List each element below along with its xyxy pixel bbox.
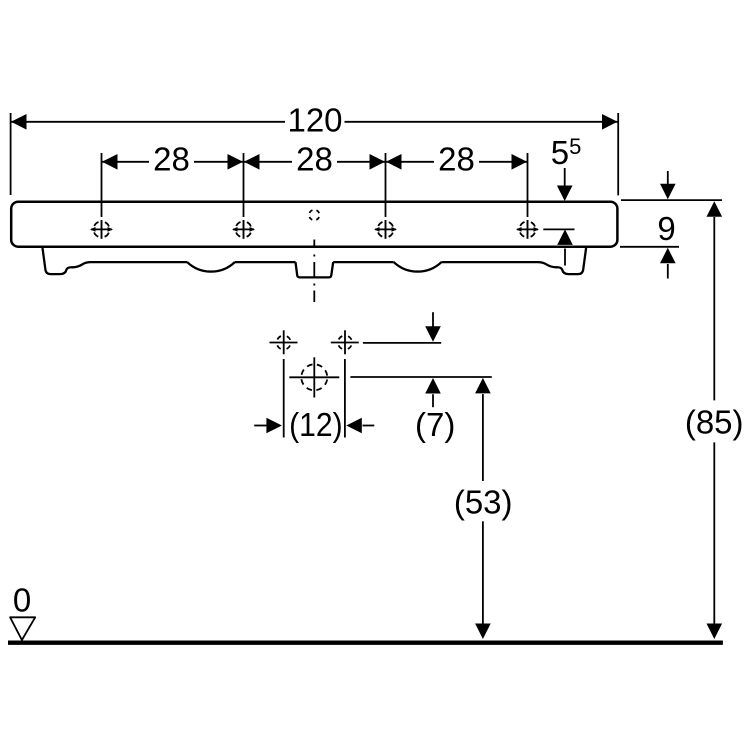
dimension (7) upper arrow (down) bbox=[425, 312, 441, 342]
svg-text:(7): (7) bbox=[415, 406, 455, 443]
tap hole symbol 2 bbox=[232, 220, 255, 239]
svg-text:0: 0 bbox=[13, 582, 31, 619]
apron line between drain and right arc bbox=[333, 261, 393, 263]
dimension 120 line bbox=[11, 121, 618, 123]
dimension 5.5 lower arrow (up) bbox=[557, 229, 573, 265]
dimension (12) extension line right bbox=[344, 359, 346, 438]
dimension 120 extension line right bbox=[617, 113, 619, 195]
siphon hole symbol bbox=[289, 357, 339, 397]
svg-text:(53): (53) bbox=[454, 484, 513, 521]
dimension 28 arrow at x=527.5 bbox=[512, 154, 528, 170]
tap hole symbol 4 bbox=[516, 220, 539, 239]
dimension 120 arrow right bbox=[602, 114, 618, 130]
dimension (85) top arrow (up) bbox=[707, 201, 723, 217]
drain trap box bbox=[296, 262, 334, 277]
dimension (12) left arrow (pointing right) bbox=[254, 418, 282, 434]
bowl arc left bbox=[187, 262, 235, 272]
svg-text:28: 28 bbox=[296, 140, 333, 177]
drain center line (dash-dot) bbox=[313, 240, 315, 303]
dimension 120 extension line left bbox=[10, 113, 12, 195]
dimension 28 line c bbox=[386, 161, 527, 163]
dimension (53) lower line and arrow (down) bbox=[475, 521, 491, 639]
washbasin slab outline bbox=[11, 202, 617, 247]
dimension 28 line a bbox=[102, 161, 243, 163]
tap hole symbol 1 bbox=[90, 220, 113, 239]
siphon height extension line bbox=[350, 376, 491, 378]
dimension 28 arrows at x=385.5 bbox=[370, 154, 402, 170]
svg-text:9: 9 bbox=[657, 210, 675, 247]
anchor hole height extension line bbox=[363, 342, 441, 344]
svg-text:28: 28 bbox=[153, 140, 190, 177]
svg-text:120: 120 bbox=[287, 101, 342, 138]
dimension 28 extension line 3 bbox=[385, 153, 387, 217]
dimension 5.5 upper arrow (down) bbox=[557, 168, 573, 201]
dimension 9 top extension line bbox=[621, 199, 722, 201]
dimension (85) vertical line bbox=[713, 217, 715, 624]
floor line bbox=[8, 641, 723, 645]
dimension 28 line b bbox=[244, 161, 385, 163]
dimension (85) bottom arrow (down) bbox=[707, 624, 723, 640]
bowl arc right bbox=[394, 262, 442, 272]
dimension 28 arrows at x=101.5 bbox=[102, 154, 118, 170]
tap hole symbol 3 bbox=[374, 220, 397, 239]
dimension (12) extension line left bbox=[283, 359, 285, 438]
dimension 9 bottom extension line bbox=[620, 246, 679, 248]
apron line between arc and drain bbox=[235, 261, 296, 263]
dimension 9 upper arrow (down) bbox=[660, 171, 676, 199]
svg-text:(85): (85) bbox=[685, 404, 744, 441]
dimension 5.5 extension line at tap hole height bbox=[543, 228, 574, 230]
dimension 28 extension line 4 bbox=[527, 153, 529, 217]
dimension (53) upper arrow (up) and line bbox=[475, 378, 491, 481]
datum triangle symbol bbox=[10, 617, 35, 640]
wall anchor hole symbol right bbox=[331, 330, 359, 354]
dimension 9 lower arrow (up) bbox=[660, 248, 676, 279]
dimension 120 arrow left bbox=[11, 114, 27, 130]
svg-text:(12): (12) bbox=[289, 406, 343, 443]
dimension (12) right arrow (pointing left) bbox=[346, 418, 374, 434]
dimension (7) lower arrow (up) bbox=[425, 378, 441, 407]
dimension 28 extension line 1 bbox=[101, 153, 103, 217]
washbasin underside apron profile with feet bbox=[43, 248, 188, 274]
svg-text:28: 28 bbox=[438, 140, 475, 177]
wall anchor hole symbol left bbox=[270, 330, 298, 354]
overflow dashed circle on slab bbox=[309, 210, 319, 220]
apron line and right foot bbox=[442, 248, 586, 274]
dimension 28 arrows at x=243.5 bbox=[228, 154, 260, 170]
dimension 28 extension line 2 bbox=[243, 153, 245, 217]
